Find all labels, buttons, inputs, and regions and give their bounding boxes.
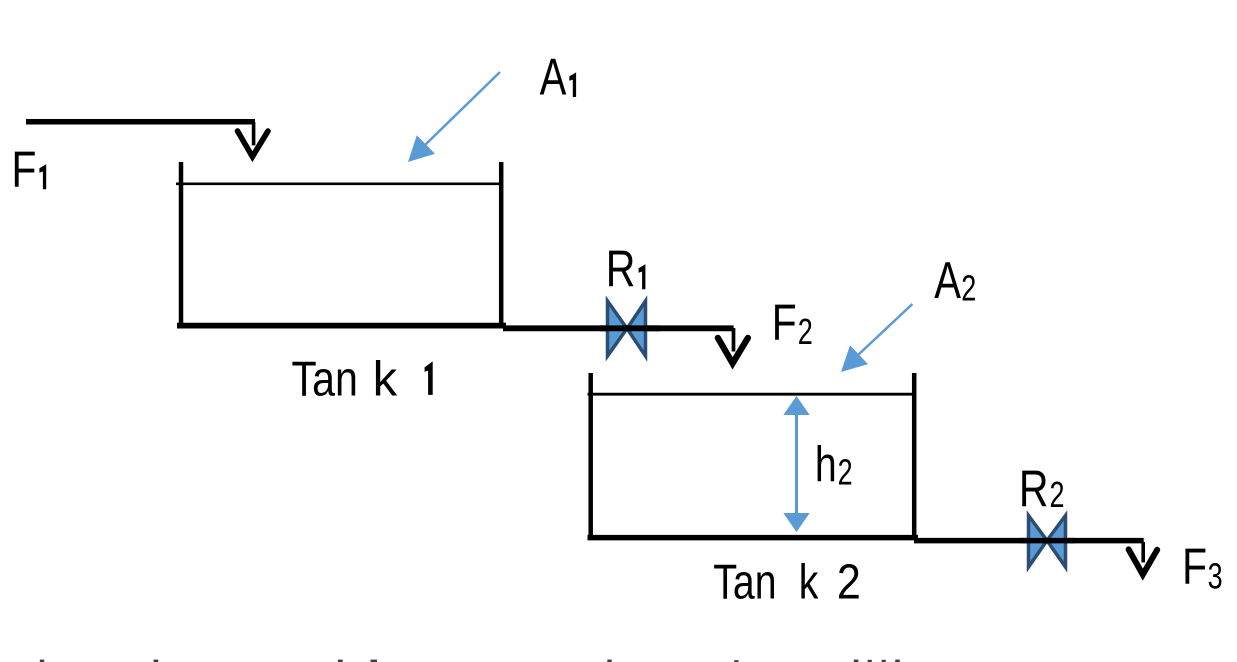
svg-text:F: F: [1182, 538, 1207, 595]
svg-text:2: 2: [837, 554, 861, 609]
svg-text:2: 2: [1050, 474, 1065, 515]
svg-text:Tan: Tan: [713, 556, 776, 610]
svg-text:k: k: [373, 352, 398, 406]
svg-text:2: 2: [798, 311, 813, 352]
svg-text:Tan: Tan: [292, 351, 358, 406]
svg-text:k: k: [799, 556, 819, 610]
svg-text:2: 2: [961, 267, 976, 308]
svg-text:A: A: [934, 251, 961, 309]
svg-text:F: F: [772, 294, 797, 351]
svg-text:F: F: [12, 141, 37, 198]
svg-text:R: R: [1019, 460, 1049, 518]
svg-text:A: A: [540, 48, 567, 106]
svg-text:3: 3: [1208, 555, 1223, 596]
svg-text:R: R: [606, 240, 636, 298]
svg-text:h: h: [815, 436, 837, 493]
svg-text:2: 2: [838, 452, 853, 493]
